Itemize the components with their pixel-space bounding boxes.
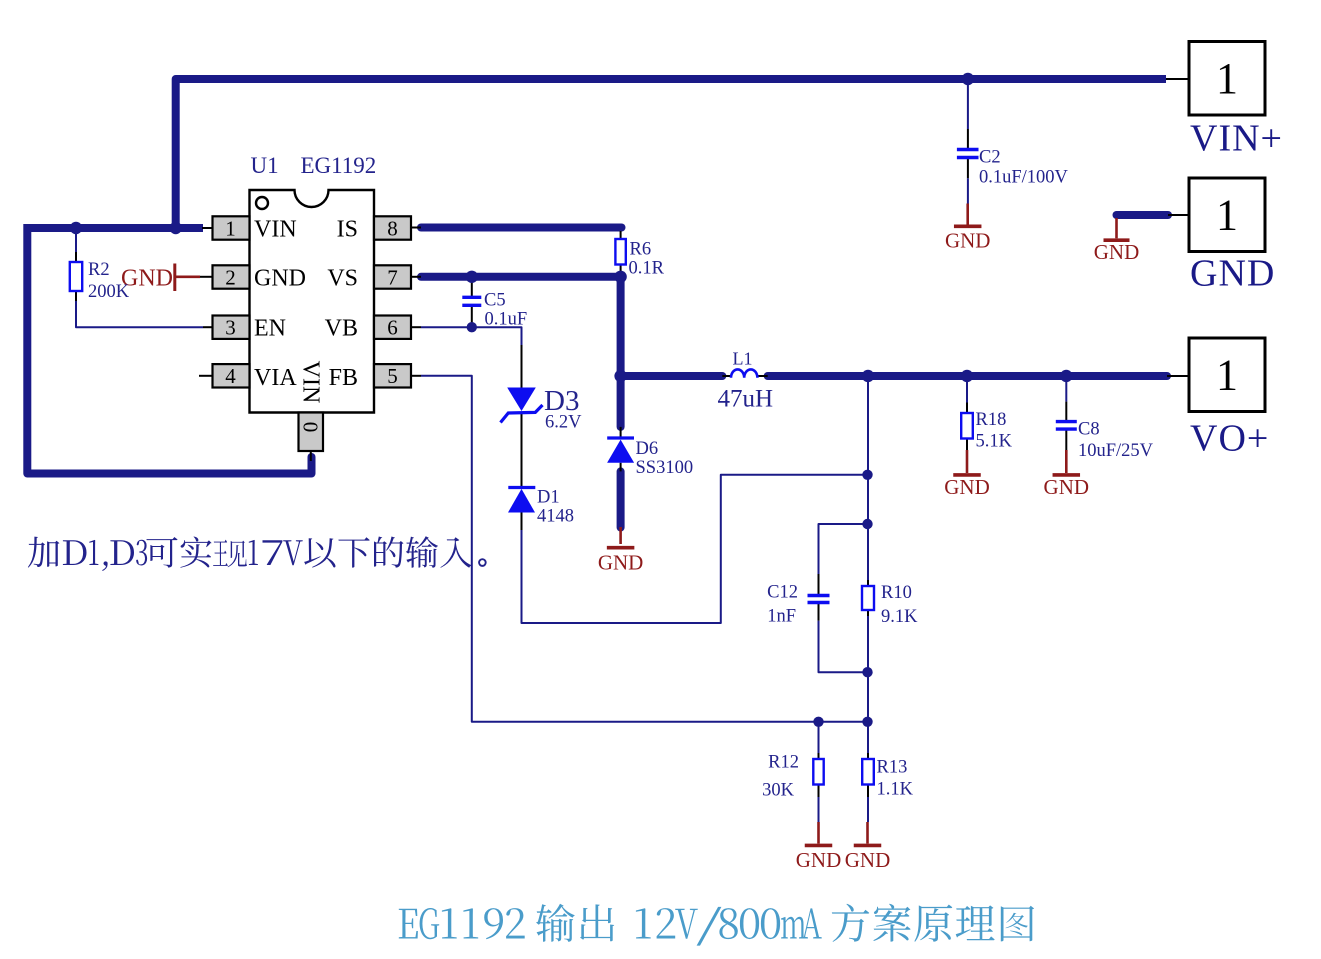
svg-text:EG1192: EG1192 (301, 153, 377, 178)
svg-text:5: 5 (387, 364, 398, 388)
svg-text:GND: GND (1044, 475, 1090, 499)
svg-text:U1: U1 (251, 153, 279, 178)
svg-text:4: 4 (225, 364, 236, 388)
svg-text:VB: VB (325, 316, 358, 342)
svg-text:R18: R18 (976, 410, 1007, 430)
svg-text:VIA: VIA (254, 365, 297, 391)
svg-text:6: 6 (387, 316, 398, 340)
svg-text:0.1uF/100V: 0.1uF/100V (979, 168, 1069, 188)
svg-text:1: 1 (1216, 351, 1238, 400)
svg-text:IS: IS (337, 217, 358, 243)
svg-text:R10: R10 (881, 583, 912, 603)
svg-text:9.1K: 9.1K (881, 607, 918, 627)
svg-text:C12: C12 (767, 583, 798, 603)
svg-text:VIN+: VIN+ (1190, 118, 1283, 160)
svg-text:SS3100: SS3100 (636, 458, 694, 478)
svg-text:GND: GND (796, 848, 842, 872)
svg-text:3: 3 (225, 316, 236, 340)
svg-text:VIN: VIN (298, 361, 324, 404)
svg-text:L1: L1 (733, 349, 753, 369)
svg-text:2: 2 (225, 265, 236, 289)
svg-text:1: 1 (225, 216, 236, 240)
svg-text:200K: 200K (88, 282, 130, 302)
svg-text:GND: GND (254, 266, 306, 292)
svg-text:GND: GND (598, 551, 644, 575)
svg-text:R12: R12 (768, 753, 799, 773)
svg-text:VIN: VIN (254, 217, 297, 243)
svg-text:4148: 4148 (537, 506, 574, 526)
svg-text:R6: R6 (630, 240, 652, 260)
svg-text:D6: D6 (636, 439, 659, 459)
svg-text:FB: FB (329, 365, 358, 391)
svg-text:C2: C2 (979, 148, 1001, 168)
svg-text:0.1R: 0.1R (629, 259, 665, 279)
svg-text:D1: D1 (537, 487, 560, 507)
svg-text:VS: VS (327, 266, 358, 292)
svg-text:GND: GND (1190, 253, 1275, 295)
svg-text:10uF/25V: 10uF/25V (1078, 441, 1154, 461)
svg-text:GND: GND (944, 475, 990, 499)
svg-text:7: 7 (387, 265, 398, 289)
svg-text:GND: GND (845, 848, 891, 872)
svg-text:1: 1 (1216, 54, 1238, 103)
svg-text:0.1uF: 0.1uF (485, 310, 528, 330)
svg-text:8: 8 (387, 216, 398, 240)
svg-text:5.1K: 5.1K (976, 432, 1013, 452)
svg-text:1: 1 (1216, 191, 1238, 240)
svg-text:R13: R13 (877, 758, 908, 778)
svg-text:0: 0 (299, 422, 323, 433)
svg-text:6.2V: 6.2V (545, 413, 582, 433)
svg-text:VO+: VO+ (1190, 418, 1269, 460)
svg-text:GND: GND (1094, 240, 1140, 264)
svg-text:EN: EN (254, 316, 286, 342)
svg-text:30K: 30K (762, 781, 795, 801)
svg-text:1nF: 1nF (767, 607, 796, 627)
svg-text:R2: R2 (88, 260, 110, 280)
svg-text:47uH: 47uH (718, 386, 774, 413)
svg-text:GND: GND (945, 228, 991, 252)
svg-text:C5: C5 (484, 291, 506, 311)
svg-text:1.1K: 1.1K (877, 780, 914, 800)
svg-text:C8: C8 (1078, 420, 1100, 440)
